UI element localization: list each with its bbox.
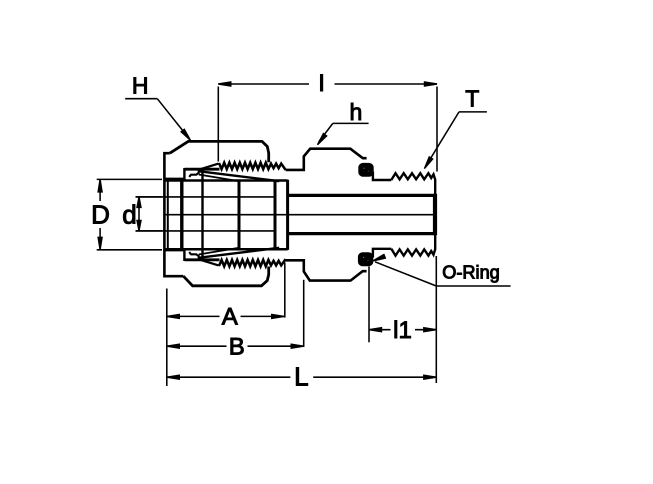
svg-text:l1: l1 bbox=[393, 317, 412, 344]
male thread T and end face bbox=[391, 173, 435, 255]
dimension B extension bbox=[303, 280, 305, 347]
leader O-Ring bbox=[375, 262, 436, 286]
end counterbore face bbox=[433, 194, 437, 235]
dimension I extension right bbox=[436, 87, 438, 172]
thread runout flat top bbox=[185, 168, 220, 171]
tube inner vertical bbox=[238, 181, 241, 250]
tube OD bottom line bbox=[164, 248, 287, 251]
leader T bbox=[459, 111, 487, 113]
dimension A line bbox=[167, 315, 220, 317]
body counterbore vertical 1 bbox=[274, 181, 277, 250]
body bore top line bbox=[288, 194, 435, 197]
ferrule back vertical bbox=[180, 181, 183, 250]
dimension l1 extension bbox=[368, 267, 370, 343]
dimension l1 line bbox=[369, 329, 391, 331]
leader h bbox=[333, 122, 369, 124]
body thread zigzag top bbox=[219, 163, 286, 170]
ferrule edge bottom short bbox=[199, 248, 238, 255]
svg-text:A: A bbox=[222, 304, 238, 331]
svg-text:T: T bbox=[465, 86, 479, 112]
dimension d line bbox=[138, 197, 140, 231]
tube OD top line bbox=[164, 179, 287, 182]
svg-text:D: D bbox=[91, 200, 110, 230]
ferrule edge bottom long bbox=[199, 248, 280, 258]
dimension D extension lines bbox=[97, 178, 162, 180]
body hex top profile bbox=[286, 149, 367, 170]
leader H bbox=[125, 98, 157, 100]
body thread zigzag bottom bbox=[219, 259, 286, 266]
ferrule mid vertical bbox=[201, 170, 203, 258]
ferrule edge top short bbox=[199, 175, 238, 182]
dimension I extension left bbox=[217, 87, 219, 162]
dimension A extension bbox=[284, 263, 286, 318]
nut shoulder curl left edge top bbox=[183, 168, 185, 180]
svg-text:O-Ring: O-Ring bbox=[442, 263, 500, 283]
nut counterbore shoulder bottom bbox=[165, 249, 185, 251]
dimension L extension right bbox=[435, 256, 437, 383]
svg-text:h: h bbox=[350, 99, 363, 125]
dimension B line bbox=[167, 345, 227, 347]
thread runout flat bottom bbox=[185, 258, 220, 261]
o-ring groove step top bbox=[373, 172, 391, 181]
body hex bottom profile bbox=[286, 260, 367, 280]
tube ID bottom line bbox=[136, 230, 274, 232]
tube ID top line bbox=[136, 196, 274, 198]
dimension L extension left bbox=[166, 289, 168, 387]
body bore bottom line bbox=[288, 232, 435, 235]
nut shoulder curl right top bbox=[189, 169, 199, 177]
ferrule edge top long bbox=[199, 171, 280, 181]
svg-text:d: d bbox=[122, 200, 136, 230]
nut shoulder curl left edge bottom bbox=[183, 249, 185, 261]
hex nut H outline bbox=[164, 153, 183, 276]
bore mid line bbox=[164, 214, 434, 216]
o-ring bottom bbox=[358, 253, 372, 266]
dimension d extension lines bbox=[136, 196, 163, 198]
svg-text:H: H bbox=[132, 73, 149, 99]
nut shoulder curl right bottom bbox=[189, 252, 199, 260]
tube end vertical bbox=[167, 181, 169, 250]
body counterbore vertical 2 bbox=[286, 180, 289, 250]
dimension I line bbox=[218, 83, 309, 85]
o-ring top bbox=[359, 163, 373, 176]
o-ring groove step bottom bbox=[373, 249, 391, 258]
svg-text:B: B bbox=[229, 333, 245, 360]
dimension D line bbox=[99, 179, 101, 201]
svg-text:I: I bbox=[318, 70, 325, 97]
svg-text:L: L bbox=[294, 361, 308, 391]
nut counterbore shoulder top bbox=[165, 178, 185, 180]
dimension L line bbox=[167, 376, 291, 378]
